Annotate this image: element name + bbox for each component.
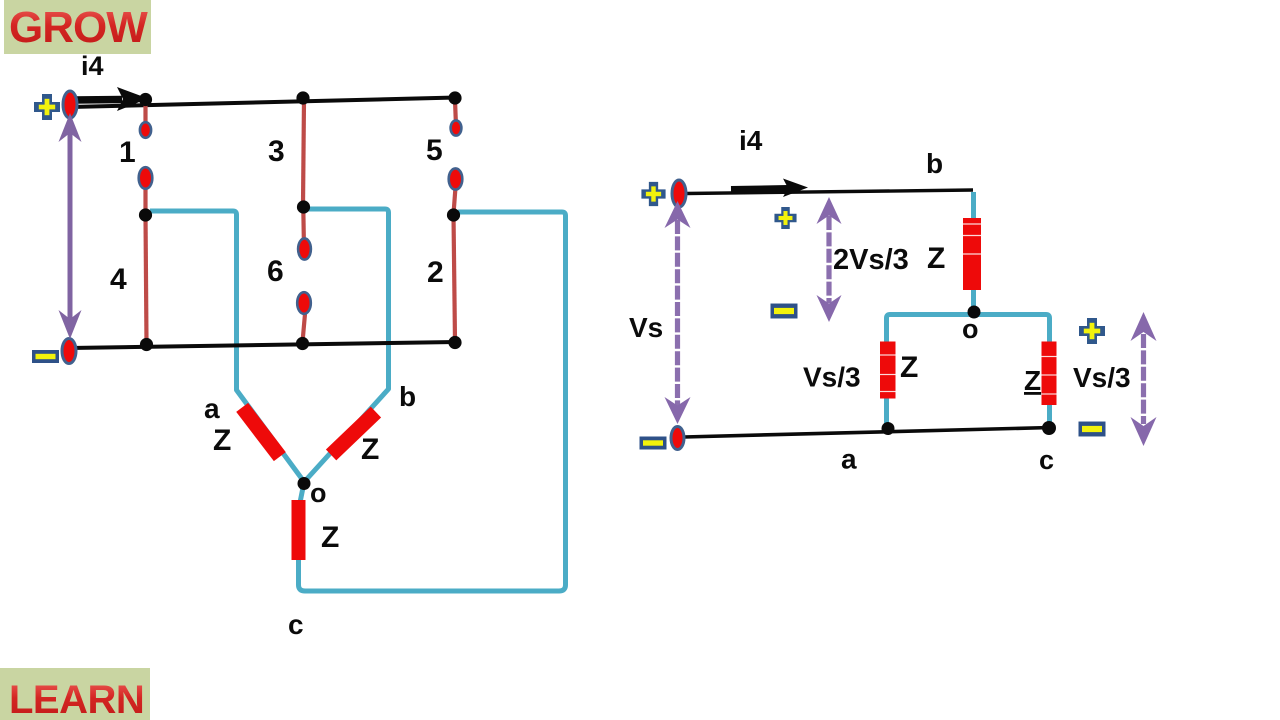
svg-text:c: c <box>288 609 304 640</box>
svg-text:c: c <box>1039 445 1054 475</box>
svg-text:3: 3 <box>268 135 285 168</box>
svg-text:Z: Z <box>927 242 945 275</box>
svg-text:Z: Z <box>361 433 379 466</box>
svg-text:i4: i4 <box>739 125 763 156</box>
svg-text:Z: Z <box>900 351 918 384</box>
svg-text:o: o <box>310 478 327 508</box>
svg-text:a: a <box>204 393 220 424</box>
svg-text:Z: Z <box>213 424 231 457</box>
svg-text:5: 5 <box>426 134 443 167</box>
svg-text:b: b <box>399 381 416 412</box>
svg-text:Vs/3: Vs/3 <box>1073 362 1131 393</box>
svg-text:LEARN: LEARN <box>9 678 144 720</box>
svg-text:2: 2 <box>427 256 444 289</box>
svg-text:2Vs/3: 2Vs/3 <box>833 244 909 276</box>
svg-text:Vs: Vs <box>629 312 663 343</box>
svg-text:6: 6 <box>267 255 284 288</box>
svg-text:o: o <box>962 314 979 344</box>
svg-text:Z: Z <box>1024 365 1041 396</box>
svg-text:a: a <box>841 444 857 475</box>
svg-text:Vs/3: Vs/3 <box>803 362 861 393</box>
svg-text:1: 1 <box>119 136 136 169</box>
svg-text:GROW: GROW <box>9 3 148 52</box>
svg-text:Z: Z <box>321 521 339 554</box>
svg-text:4: 4 <box>110 263 127 296</box>
svg-text:b: b <box>926 148 943 179</box>
svg-text:i4: i4 <box>81 51 104 81</box>
